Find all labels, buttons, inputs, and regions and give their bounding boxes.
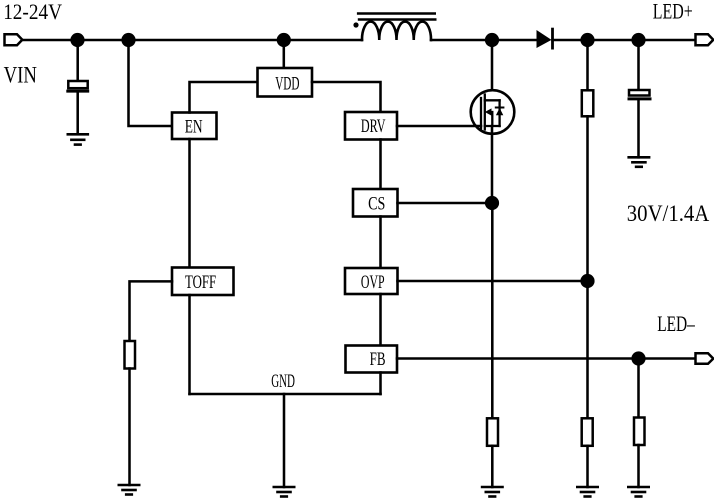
svg-text:LED+: LED+: [653, 0, 693, 23]
ground below R5: [577, 487, 597, 497]
svg-text:OVP: OVP: [361, 272, 385, 293]
node drain junction on rail: [485, 33, 499, 47]
pin box FB: [346, 346, 398, 373]
node VIN rail / VDD junction: [277, 33, 291, 47]
ground below R1: [119, 485, 139, 495]
node rail / R2 junction: [580, 33, 594, 47]
wire EN bottom to TOFF top: [188, 139, 191, 268]
svg-text:VDD: VDD: [275, 74, 299, 95]
wire C1 to ground: [76, 93, 79, 134]
ground below R4: [482, 487, 502, 497]
wire diode to LED+ port: [553, 39, 696, 42]
wire rail to R2: [586, 40, 589, 90]
port LED- terminal: [696, 353, 714, 364]
node CS / source junction: [485, 196, 499, 210]
wire CS to source node: [398, 202, 493, 205]
wire TOFF bottom to GND rail: [188, 295, 191, 394]
pin box DRV: [345, 112, 397, 140]
pin box OVP: [345, 268, 398, 294]
wire CS bottom to OVP top: [379, 217, 382, 269]
wire R2 down through OVP node to R5: [586, 116, 589, 418]
svg-text:VIN: VIN: [4, 63, 38, 88]
port LED+ terminal: [696, 34, 714, 45]
capacitor C2: [629, 90, 650, 99]
wire DRV to gate: [397, 125, 481, 128]
wire VDD top to rail: [283, 40, 286, 68]
ground below C1: [68, 134, 88, 144]
wire R6 to ground: [637, 445, 640, 487]
wire C1 to rail: [76, 40, 79, 81]
node rail / C2 junction: [631, 33, 645, 47]
wire R5 to ground: [586, 446, 589, 487]
svg-text:CS: CS: [368, 193, 385, 214]
port VIN terminal: [5, 34, 23, 45]
wire VDD left to EN top: [190, 82, 258, 113]
pin box VDD: [258, 68, 313, 97]
wire FB to LED- port: [397, 357, 696, 360]
wire top rail left (VIN to inductor): [22, 39, 362, 42]
wire inductor to diode: [431, 39, 537, 42]
resistor R6: [634, 418, 645, 446]
svg-text:GND: GND: [271, 371, 295, 392]
wire TOFF left to R1: [130, 281, 173, 341]
svg-text:DRV: DRV: [361, 116, 386, 137]
resistor R1: [125, 341, 136, 369]
ground below C2: [629, 157, 649, 167]
node VIN rail / EN junction: [121, 33, 135, 47]
diode D1: [537, 29, 553, 48]
node OVP junction: [580, 274, 594, 288]
resistor R4: [487, 418, 498, 446]
svg-text:30V/1.4A: 30V/1.4A: [627, 201, 710, 226]
transistor Q1 (N-MOSFET): [471, 90, 515, 134]
node FB / R6 junction: [631, 351, 645, 365]
svg-text:FB: FB: [370, 349, 386, 370]
pin box TOFF: [172, 268, 234, 296]
resistor R5: [582, 418, 593, 446]
wire R1 to ground: [128, 369, 131, 486]
wire DRV bottom to CS top: [379, 140, 382, 190]
wire drain from rail to MOSFET: [491, 40, 494, 100]
resistor R2: [582, 90, 594, 116]
pin box EN: [172, 113, 217, 140]
wire rail to C2: [637, 40, 640, 90]
ground below GND rail: [274, 487, 294, 497]
node VIN rail / C1 junction: [70, 33, 84, 47]
svg-text:TOFF: TOFF: [185, 272, 216, 293]
wire FB bottom to GND rail: [379, 373, 382, 395]
wire R4 to ground: [491, 446, 494, 487]
svg-text:EN: EN: [185, 117, 203, 138]
capacitor C1: [68, 81, 88, 91]
wire OVP bottom to FB top: [379, 294, 382, 346]
ground below R6: [628, 487, 648, 497]
svg-text:12-24V: 12-24V: [3, 0, 62, 24]
wire GND rail: [190, 393, 381, 396]
wire OVP to R2 column: [398, 280, 588, 283]
wire VDD right to DRV top: [312, 82, 381, 112]
svg-text:LED–: LED–: [657, 311, 695, 336]
wire FB node down to R6: [637, 359, 640, 418]
wire EN to rail: [129, 40, 173, 126]
wire source to CS node: [491, 126, 494, 203]
wire GND rail to ground: [283, 394, 286, 487]
inductor L1: [353, 14, 435, 41]
wire source node down to R4: [491, 203, 494, 418]
pin box CS: [353, 189, 398, 217]
wire C2 to ground: [637, 100, 640, 157]
